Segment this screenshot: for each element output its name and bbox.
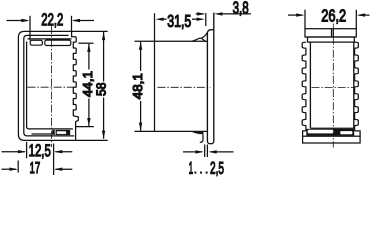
- dim 58 stem and arrows: [103, 32, 105, 139]
- svg-text:3,8: 3,8: [233, 0, 249, 17]
- dim 48,1 stem and arrows: [140, 42, 142, 131]
- dim 31,5 arrows: [155, 18, 163, 21]
- dim 22,2 right extension line: [71, 16, 73, 32]
- left toothed edge: [302, 42, 306, 131]
- flange back face: [207, 30, 213, 141]
- right toothed edge of frame: [72, 31, 79, 140]
- band bottom line: [306, 135, 354, 137]
- svg-text:2,5: 2,5: [210, 159, 224, 178]
- dim 12,5 arrows: [2, 151, 25, 153]
- dim 17 arrows: [2, 168, 17, 170]
- middle view horizontal centerline: [158, 86, 211, 88]
- bottom band small dark block: [52, 130, 55, 135]
- dim 22,2 right arrow: [74, 20, 95, 22]
- right view vertical centerline: [332, 24, 334, 148]
- skirt right step: [355, 131, 361, 136]
- dim 58 top extension: [72, 30, 108, 32]
- body left edge (also 31,5 extension): [154, 13, 156, 131]
- dim 1...2,5 extension lines: [205, 145, 208, 158]
- dim 22,2 left extension line: [29, 16, 31, 41]
- svg-text:48,1: 48,1: [130, 73, 145, 99]
- clip hook tail: [200, 134, 203, 142]
- second band: [308, 37, 355, 42]
- body bottom edge: [135, 130, 208, 132]
- dim 17 extension line: [17, 161, 19, 173]
- top band line: [28, 38, 72, 40]
- svg-text:22,2: 22,2: [41, 10, 63, 29]
- bottom dark band: [306, 129, 354, 136]
- cap top band: [305, 29, 356, 37]
- dim 22,2 left arrow: [7, 20, 28, 22]
- dim 44,1 bottom extension: [76, 126, 94, 128]
- top latch bump: [192, 38, 206, 41]
- band right white window: [340, 131, 352, 134]
- wide top slot: [45, 40, 71, 45]
- svg-text:58: 58: [94, 83, 109, 97]
- band left white window: [308, 130, 334, 133]
- flange front face: [213, 13, 215, 141]
- small top slot: [30, 40, 42, 45]
- dim 3,8 arrows: [196, 13, 204, 15]
- dim 44,1 stem and arrows: [88, 44, 90, 127]
- flange bottom rounded tip: [207, 141, 213, 144]
- band divider ticks: [332, 29, 334, 37]
- dim 26,2 arrows: [288, 14, 303, 16]
- bottom clip hook wedge: [191, 132, 203, 135]
- right view horizontal centerline: [312, 87, 354, 89]
- dim 26,2 extension lines: [305, 10, 356, 29]
- svg-text:44,1: 44,1: [80, 71, 95, 97]
- left view vertical centerline: [50, 26, 52, 147]
- left view horizontal centerline: [28, 86, 74, 88]
- frame inner opening C: [27, 42, 73, 129]
- riser curve to flange top: [201, 33, 207, 38]
- svg-text:17: 17: [30, 160, 41, 177]
- dim 44,1 top extension: [79, 42, 94, 44]
- frame outer outline A: [18, 31, 77, 140]
- svg-text:12,5: 12,5: [29, 141, 51, 160]
- dim 1...2,5 arrows: [183, 151, 202, 153]
- frame middle outline B: [24, 35, 74, 135]
- inner wall lines: [310, 42, 353, 128]
- dim 58 bottom extension: [77, 139, 108, 141]
- bottom band dark slot block: [56, 130, 71, 135]
- dim 12,5 extension lines: [27, 142, 54, 175]
- svg-text:26,2: 26,2: [321, 6, 346, 25]
- bottom band white window: [57, 131, 66, 134]
- skirt left step: [303, 131, 306, 136]
- svg-text:1: 1: [189, 159, 194, 178]
- bottom skirt: [303, 136, 361, 143]
- svg-text:31,5: 31,5: [167, 12, 191, 31]
- body top edge: [135, 40, 208, 42]
- dim 31,5 right extension tick: [205, 13, 207, 26]
- cavity bottom line: [310, 127, 353, 129]
- bottom band inner line: [32, 133, 56, 135]
- right toothed edge: [355, 42, 359, 131]
